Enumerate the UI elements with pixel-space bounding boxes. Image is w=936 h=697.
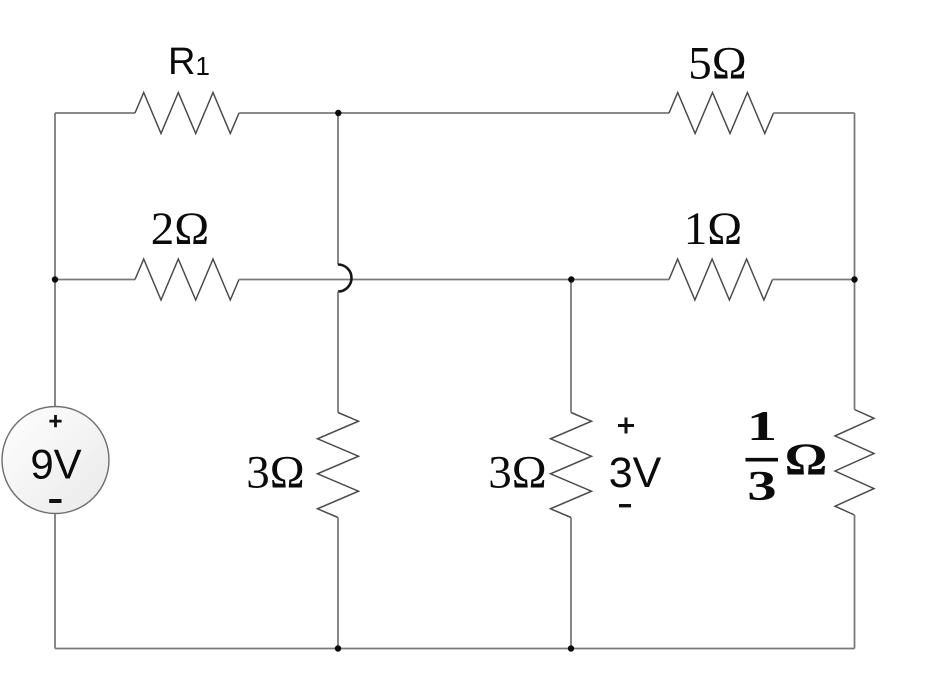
svg-text:Ω: Ω	[785, 434, 828, 485]
resistor 3-ohm left	[318, 413, 359, 518]
wire top-middle horizontal	[239, 112, 669, 114]
label 2-ohm	[151, 203, 209, 255]
resistor R1	[135, 93, 239, 134]
label 3-ohm middle	[488, 447, 546, 499]
svg-text:2Ω: 2Ω	[151, 203, 209, 255]
wire top-right horizontal	[774, 112, 855, 114]
wire left rail upper	[54, 113, 56, 407]
wire right rail lower	[854, 515, 856, 649]
resistor one-third-ohm	[835, 410, 874, 516]
label ohm symbol of one-third	[785, 434, 828, 485]
svg-text:3Ω: 3Ω	[488, 447, 546, 499]
label 3V plus	[618, 418, 634, 434]
svg-text:1: 1	[747, 403, 777, 450]
label 3-ohm left	[246, 447, 304, 499]
svg-text:9V: 9V	[30, 441, 81, 488]
wire middle branch upper	[337, 113, 339, 265]
svg-text:R1: R1	[168, 41, 210, 83]
wire second branch lower	[570, 518, 572, 649]
resistor 5-ohm	[669, 93, 774, 134]
svg-text:1Ω: 1Ω	[684, 203, 742, 255]
node bottom junction middle	[568, 645, 574, 651]
label one-third fraction denominator	[747, 463, 776, 510]
wire middle branch lower	[337, 518, 339, 649]
wire second row middle	[239, 279, 669, 281]
wire second row right	[773, 279, 855, 281]
node bottom junction left	[335, 645, 341, 651]
resistor 2-ohm	[135, 259, 239, 300]
resistor 1-ohm	[669, 259, 773, 300]
label one-third fraction numerator	[747, 403, 777, 450]
wire second branch upper	[570, 280, 572, 413]
wire bottom horizontal	[55, 648, 855, 650]
svg-text:3Ω: 3Ω	[246, 447, 304, 499]
node right second-row junction	[851, 276, 857, 282]
wire right rail upper	[854, 113, 856, 410]
svg-text:3V: 3V	[609, 449, 662, 497]
wire hop crossover	[338, 265, 352, 292]
svg-text:3: 3	[747, 463, 776, 510]
resistor 3-ohm middle	[551, 413, 592, 518]
node left second-row junction	[52, 276, 58, 282]
wire left rail lower	[54, 514, 56, 649]
wire middle branch mid	[337, 292, 339, 413]
svg-text:5Ω: 5Ω	[688, 38, 746, 90]
wire second row left	[55, 279, 135, 281]
voltage source 9V	[2, 407, 109, 514]
node middle second-row junction	[568, 276, 574, 282]
label 3V	[609, 449, 662, 497]
label 3V minus	[619, 504, 631, 507]
label R1	[168, 41, 210, 83]
label one-third fraction bar	[746, 458, 779, 462]
label 5-ohm	[688, 38, 746, 90]
wire top-left horizontal	[55, 112, 135, 114]
node top junction	[335, 110, 341, 116]
label 1-ohm	[684, 203, 742, 255]
